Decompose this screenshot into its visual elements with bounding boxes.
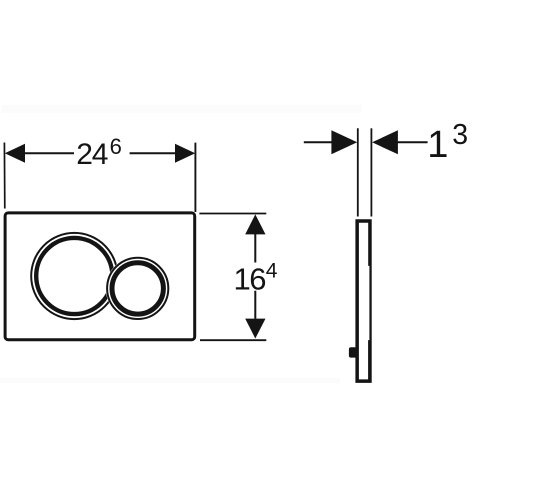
side view plate profile (355, 219, 371, 383)
small button outer ring (107, 258, 168, 319)
svg-text:4: 4 (266, 260, 278, 283)
thickness dimension right arrow (372, 130, 398, 154)
width dimension line left segment (25, 152, 75, 154)
height dimension up arrow (245, 214, 265, 234)
height dimension bottom witness line (200, 339, 266, 341)
width dimension left witness line (3, 143, 5, 209)
height dimension top witness line (199, 213, 266, 215)
small button inner ring (112, 263, 163, 314)
thickness dimension left arrow (331, 130, 357, 154)
svg-text:3: 3 (452, 119, 468, 151)
small button mask disc (106, 256, 170, 320)
thickness dimension right line (397, 141, 428, 143)
svg-text:24: 24 (76, 138, 107, 171)
thickness dimension left witness line (357, 128, 359, 216)
svg-text:1: 1 (427, 124, 448, 166)
width dimension right arrow (175, 144, 195, 163)
thickness dimension left line (304, 141, 333, 143)
scan noise band upper (2, 105, 362, 113)
side view mounting clip (349, 347, 357, 357)
width dimension right witness line (194, 143, 196, 212)
width dimension left arrow (5, 144, 25, 163)
height dimension line upper segment (254, 234, 256, 263)
svg-text:6: 6 (110, 134, 122, 159)
scan noise band lower (0, 378, 340, 383)
big button inner ring (36, 238, 112, 314)
height dimension line lower segment (254, 291, 256, 319)
thickness dimension right witness line (370, 128, 372, 216)
svg-text:16: 16 (234, 261, 266, 296)
big button outer ring (31, 233, 117, 319)
height dimension down arrow (245, 319, 265, 339)
front view plate outline (5, 213, 195, 340)
width dimension line right segment (130, 152, 176, 154)
